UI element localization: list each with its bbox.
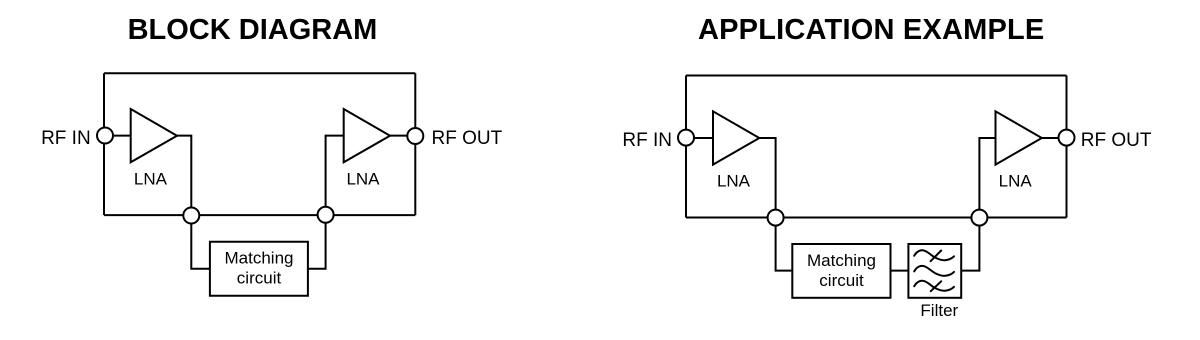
wire: node N2 to matching circuit output (307, 215, 326, 269)
wire: fig2 right vertical (RF OUT feed) (1066, 76, 1068, 218)
matching circuit box (fig1) (210, 242, 308, 296)
wire: amplifier A4 output to RF OUT (1042, 137, 1067, 139)
amplifier A1 (LNA triangle) (131, 109, 177, 162)
svg-text:RF IN: RF IN (41, 128, 91, 149)
wire: fig1 top horizontal (104, 72, 415, 74)
wire: node N4 to amplifier A4 input (979, 138, 995, 218)
wire: RF IN to amplifier A3 input (686, 137, 713, 139)
wire: fig2 top horizontal (686, 75, 1067, 77)
junction node N3 (768, 210, 784, 226)
svg-text:RF OUT: RF OUT (432, 128, 503, 149)
svg-text:LNA: LNA (717, 172, 751, 191)
terminal circle: RF OUT (fig2) (1059, 130, 1075, 146)
svg-text:circuit: circuit (237, 269, 282, 288)
terminal circle: RF OUT (407, 128, 423, 144)
matching circuit box (fig2) (792, 244, 890, 298)
svg-text:RF OUT: RF OUT (1081, 130, 1152, 151)
wire: node N3 to matching circuit input (776, 218, 794, 271)
wire: fig1 right vertical (RF OUT feed) (414, 73, 416, 215)
junction node N4 (971, 210, 987, 226)
wire: fig1 bottom bus (104, 214, 415, 216)
amplifier A2 (LNA triangle) (344, 109, 390, 162)
wire: filter output to node N4 (960, 218, 979, 271)
amplifier A3 (LNA triangle) (713, 111, 759, 164)
wire: amplifier A3 output to node N3 (759, 138, 775, 218)
terminal circle: RF IN (97, 128, 113, 144)
filter box FL1 (908, 244, 961, 298)
wire: amplifier A1 output to node N1 (177, 136, 191, 216)
svg-text:Filter: Filter (920, 301, 958, 320)
amplifier A4 (LNA triangle) (996, 111, 1042, 164)
svg-text:Matching: Matching (225, 249, 294, 268)
svg-text:LNA: LNA (134, 169, 168, 188)
wire: RF IN to amplifier A1 input (104, 135, 131, 137)
wire: fig2 left vertical (RF IN feed) (685, 76, 687, 218)
wire: fig1 left vertical (RF IN feed) (103, 73, 105, 215)
svg-text:LNA: LNA (999, 172, 1033, 191)
wire: fig2 bottom bus (686, 217, 1067, 219)
svg-text:BLOCK DIAGRAM: BLOCK DIAGRAM (128, 14, 378, 46)
filter symbol: middle wave (914, 266, 954, 276)
svg-text:Matching: Matching (807, 251, 876, 270)
wire: amplifier A2 output to RF OUT (390, 135, 415, 137)
junction node N2 (318, 207, 334, 223)
svg-text:LNA: LNA (346, 169, 380, 188)
svg-text:APPLICATION EXAMPLE: APPLICATION EXAMPLE (698, 14, 1044, 46)
wire: matching circuit output to filter input (890, 270, 910, 272)
filter symbol: bottom wave with strike (914, 281, 954, 291)
wire: node N1 to matching circuit input (191, 215, 211, 269)
filter symbol: top wave with strike (914, 250, 954, 261)
svg-text:circuit: circuit (819, 271, 864, 290)
wire: node N2 to amplifier A2 input (326, 136, 344, 216)
junction node N1 (183, 208, 199, 224)
svg-text:RF IN: RF IN (622, 130, 672, 151)
terminal circle: RF IN (fig2) (678, 130, 694, 146)
